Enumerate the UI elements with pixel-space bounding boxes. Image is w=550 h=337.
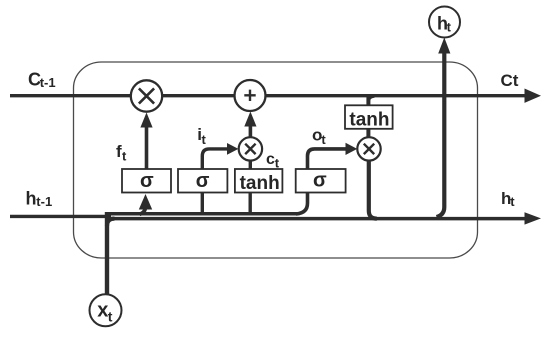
node x_t circle bbox=[90, 294, 122, 326]
wire tanh stub down to h line bbox=[248, 193, 251, 216]
wire C line bbox=[10, 94, 527, 97]
box sigma 4 (output gate) bbox=[296, 169, 346, 193]
svg-text:tanh: tanh bbox=[349, 109, 389, 130]
arrowhead Ct output bbox=[525, 89, 542, 103]
small multiply circle (input gate) bbox=[239, 137, 262, 160]
wire internal gate feed line bbox=[105, 212, 298, 216]
arrow f (sigma1 to multiply) bbox=[145, 125, 149, 170]
box sigma 1 bbox=[122, 169, 171, 193]
svg-text:Ct: Ct bbox=[501, 71, 519, 90]
svg-text:t: t bbox=[202, 132, 207, 147]
small multiply circle (output gate) bbox=[357, 137, 380, 160]
add gate on C bbox=[235, 80, 266, 111]
arrowhead into h_t node bbox=[438, 38, 450, 54]
arrowhead o_t bbox=[346, 143, 358, 155]
box tanh top bbox=[345, 105, 393, 129]
svg-text:c: c bbox=[266, 151, 275, 168]
box sigma 2 bbox=[178, 169, 227, 193]
svg-text:t: t bbox=[447, 19, 452, 34]
svg-text:tanh: tanh bbox=[240, 173, 280, 194]
wire i_t (sigma2 up and right into small multiply) bbox=[202, 149, 229, 169]
svg-text:σ: σ bbox=[313, 170, 327, 192]
wire h_t branch up bbox=[437, 53, 445, 217]
svg-text:t: t bbox=[122, 149, 127, 164]
arrowhead i_t bbox=[227, 143, 238, 155]
multiply gate on C (forget) bbox=[131, 80, 162, 111]
svg-text:t-1: t-1 bbox=[40, 75, 56, 90]
svg-text:t: t bbox=[321, 132, 326, 147]
node h_t circle bbox=[429, 7, 460, 38]
arrowhead h_t output bbox=[525, 212, 542, 224]
wire h_t-1 entry segment bbox=[10, 215, 111, 218]
wire C branch down into tanh top bbox=[366, 96, 370, 106]
wire o_t (sigma4 up and right into output multiply) bbox=[308, 149, 348, 169]
fillet x_t onto h output line bbox=[107, 219, 115, 226]
svg-text:x: x bbox=[97, 300, 108, 322]
wire h output line bbox=[105, 217, 527, 221]
wire output multiply down to h line bbox=[369, 160, 377, 218]
fillet at C branch junction bbox=[368, 96, 374, 102]
wire x_t input bbox=[105, 212, 109, 295]
svg-text:t: t bbox=[108, 309, 113, 325]
wire tanh top to output multiply bbox=[366, 129, 370, 138]
wire tanh stub up to small multiply bbox=[249, 160, 252, 169]
wire sigma2 stub to h line bbox=[201, 193, 204, 216]
box tanh bottom bbox=[235, 169, 283, 193]
wire h line corner up into sigma4 bbox=[296, 193, 308, 214]
svg-text:h: h bbox=[26, 189, 37, 209]
svg-text:σ: σ bbox=[196, 170, 210, 192]
svg-text:t: t bbox=[510, 194, 515, 209]
arrow from h line into sigma1 bbox=[140, 207, 146, 214]
svg-text:t-1: t-1 bbox=[36, 194, 52, 209]
arrow small multiply to add gate bbox=[249, 126, 253, 137]
svg-text:σ: σ bbox=[140, 170, 154, 192]
cell body rounded rectangle bbox=[74, 62, 478, 258]
